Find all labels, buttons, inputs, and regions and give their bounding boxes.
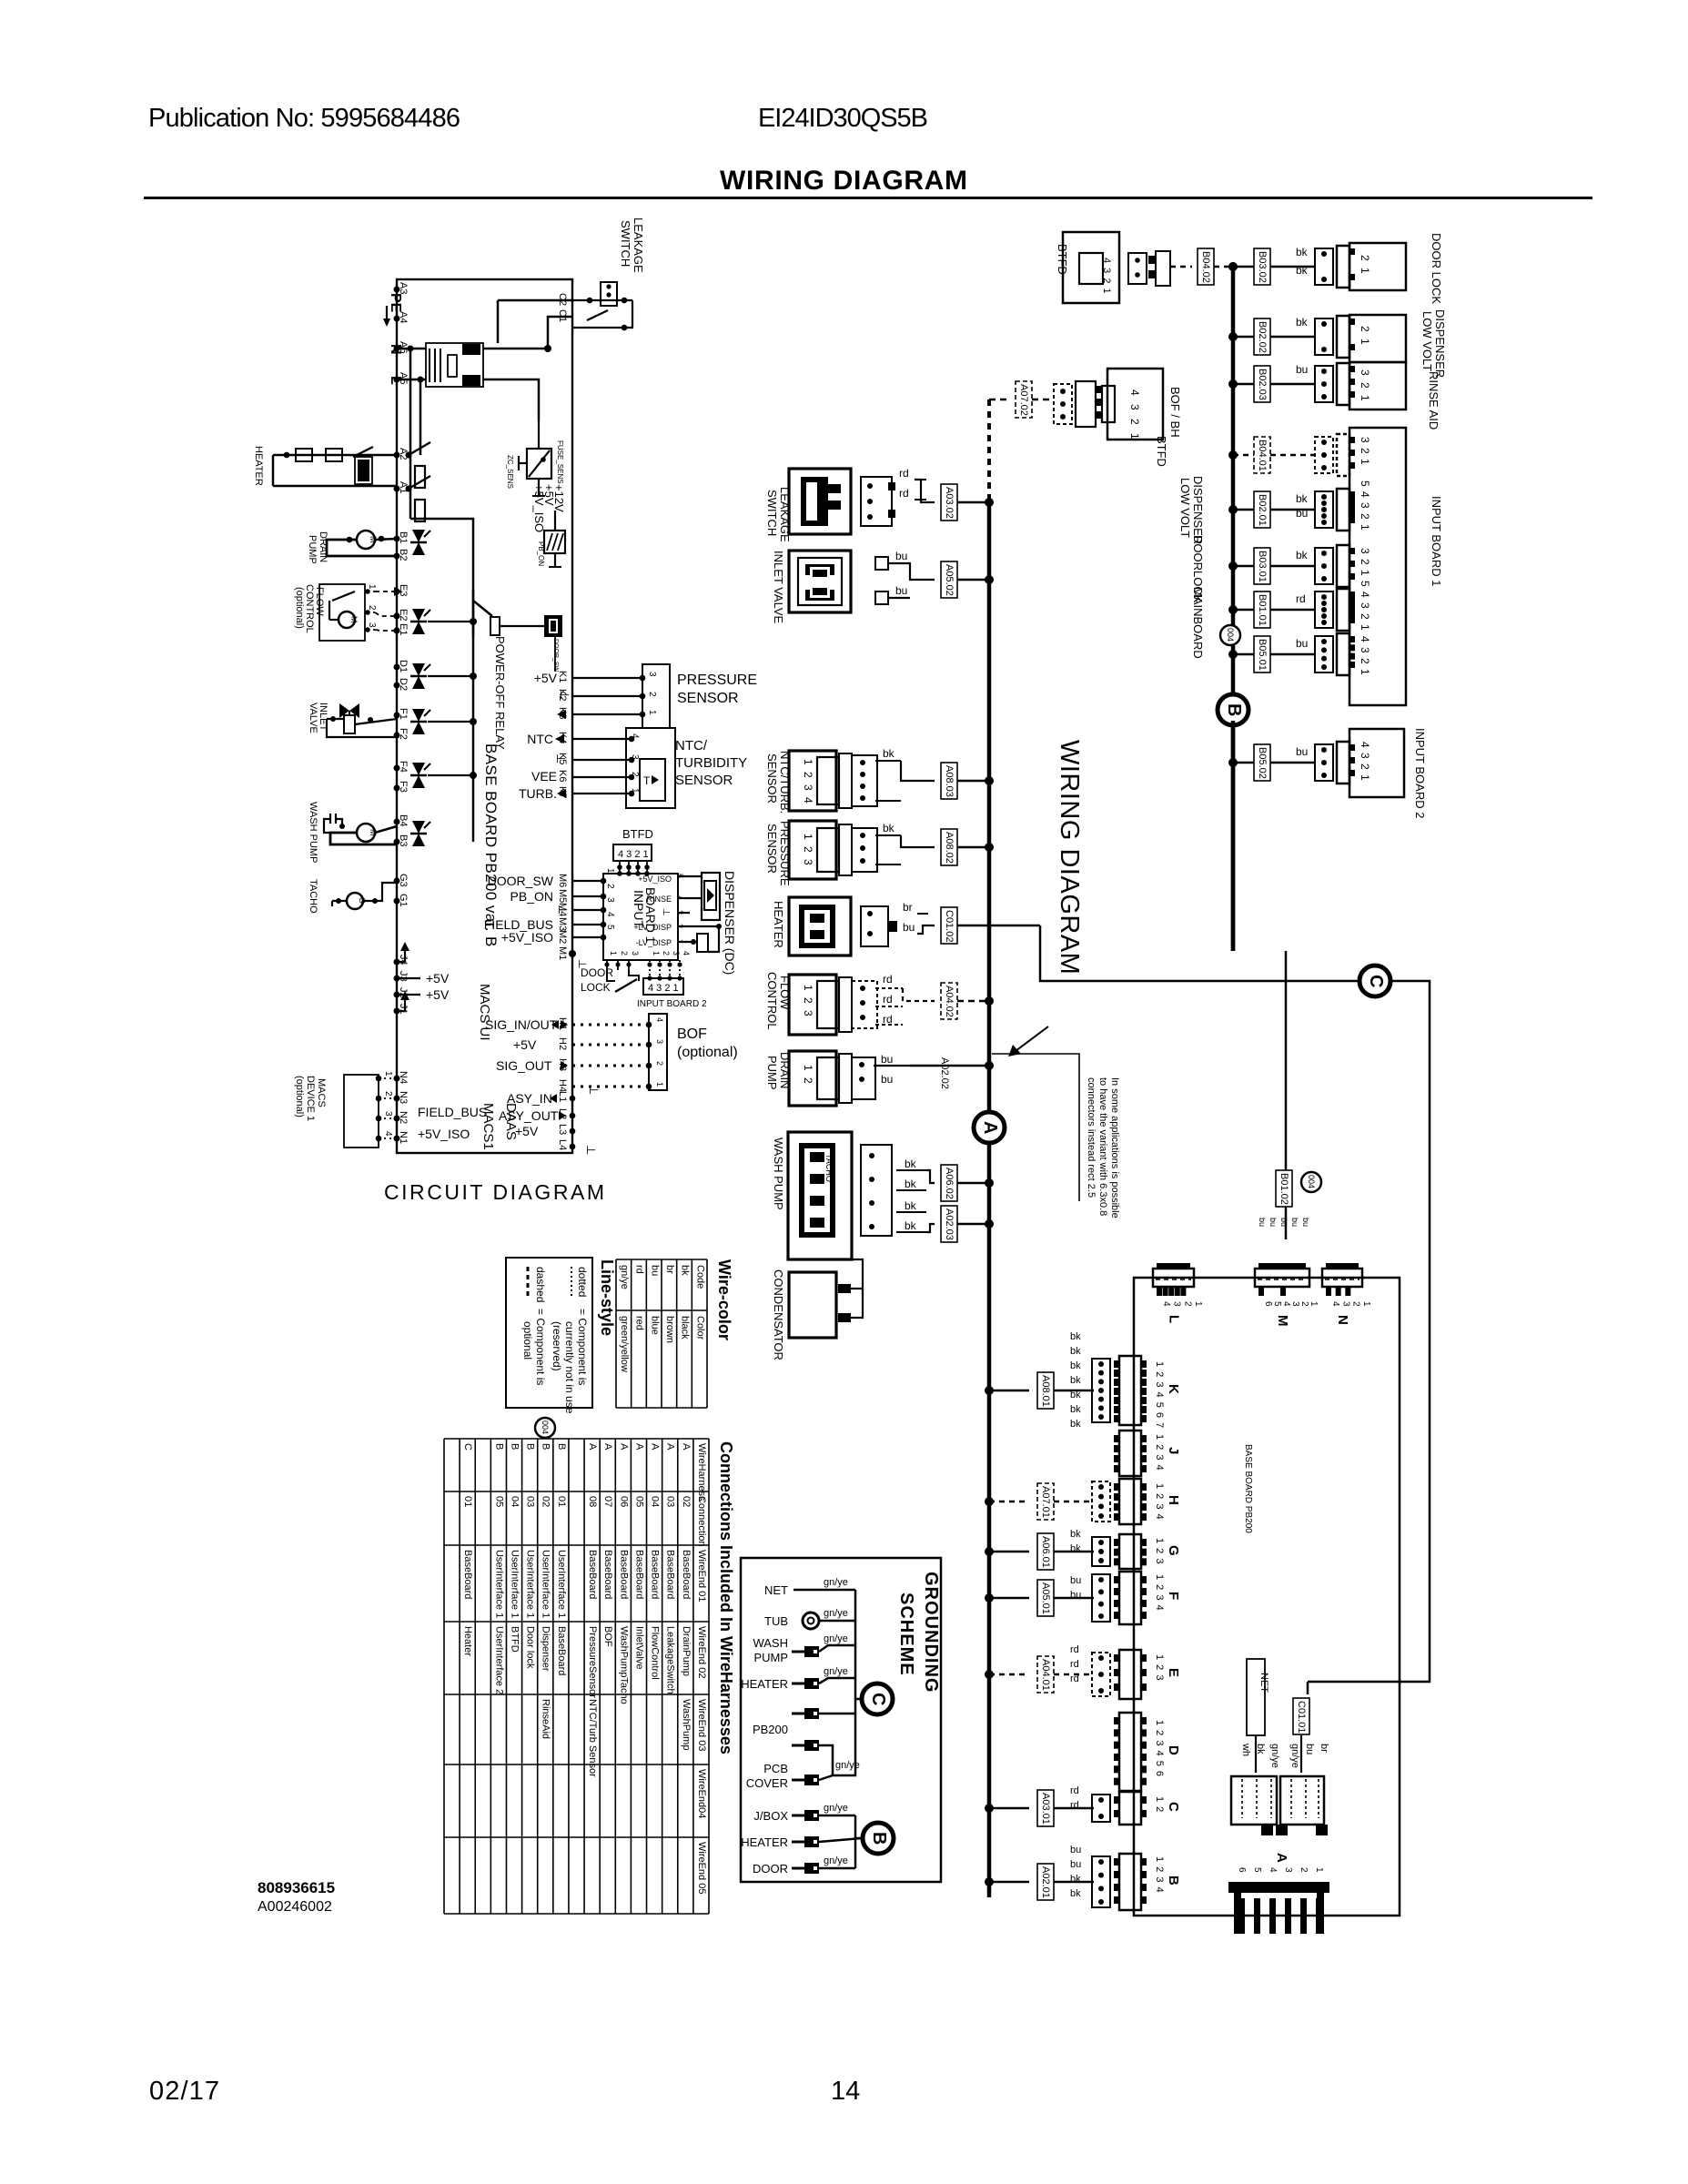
svg-text:B01.02: B01.02 [1279,1173,1289,1205]
svg-text:H2: H2 [557,1037,568,1050]
svg-text:B03.02: B03.02 [1257,251,1268,283]
svg-text:PRESSURE: PRESSURE [677,672,757,688]
svg-text:GROUNDING: GROUNDING [921,1572,941,1693]
svg-text:03: 03 [525,1496,536,1507]
svg-text:M2: M2 [557,930,568,944]
svg-text:bk: bk [905,1178,917,1190]
svg-text:H: H [1166,1495,1181,1505]
svg-text:A: A [980,1121,1000,1134]
svg-text:BaseBoard: BaseBoard [650,1550,661,1599]
svg-text:WIRING DIAGRAM: WIRING DIAGRAM [720,166,967,196]
svg-text:2: 2 [1299,1301,1309,1307]
svg-text:dotted: dotted [576,1267,589,1297]
svg-text:2: 2 [647,692,657,697]
svg-text:1: 1 [1361,1301,1371,1307]
svg-text:L4: L4 [557,1139,568,1150]
svg-text:B03.01: B03.01 [1257,551,1268,582]
svg-text:4: 4 [1161,1301,1171,1307]
svg-text:B: B [869,1832,889,1845]
svg-text:PCB: PCB [763,1762,788,1775]
svg-text:J: J [1166,1447,1181,1454]
svg-text:C01.02: C01.02 [944,910,955,942]
svg-text:brown: brown [664,1316,675,1343]
svg-text:1: 1 [605,868,615,874]
svg-text:03: 03 [665,1496,676,1507]
svg-text:gn/ye: gn/ye [824,1608,848,1619]
svg-text:4: 4 [682,951,691,955]
svg-text:bu: bu [1070,1590,1081,1601]
svg-text:INLET VALVE: INLET VALVE [772,551,785,624]
svg-text:1: 1 [647,710,657,715]
svg-text:optional: optional [521,1321,534,1360]
svg-text:rd: rd [634,1265,645,1274]
svg-text:+5V: +5V [426,987,450,1002]
svg-text:INPUT BOARD 1: INPUT BOARD 1 [1430,496,1443,586]
svg-text:BaseBoard: BaseBoard [681,1550,692,1599]
svg-text:WASH PUMP: WASH PUMP [772,1137,785,1210]
svg-text:WashPumpTacho: WashPumpTacho [618,1626,629,1704]
svg-text:rd: rd [1070,1644,1079,1655]
svg-text:rd: rd [1070,1673,1079,1684]
svg-text:A04.02: A04.02 [944,986,955,1017]
svg-text:+5V: +5V [534,671,558,685]
svg-text:RINSE AID: RINSE AID [1427,371,1440,430]
svg-text:bu: bu [1296,637,1308,650]
svg-text:EI24ID30QS5B: EI24ID30QS5B [758,104,928,133]
svg-text:02: 02 [541,1496,551,1507]
svg-text:M: M [349,616,359,623]
svg-text:2 1: 2 1 [1359,255,1371,276]
svg-text:A00246002: A00246002 [258,1899,332,1915]
svg-text:SENSOR: SENSOR [765,753,779,804]
svg-text:BaseBoard: BaseBoard [633,1550,644,1599]
svg-text:MACS UI: MACS UI [477,984,492,1041]
svg-text:rd: rd [883,1013,893,1026]
svg-text:PB_ON: PB_ON [537,541,545,566]
svg-text:A08.02: A08.02 [944,832,955,864]
svg-text:B05.02: B05.02 [1257,747,1268,779]
svg-text:WireHarness: WireHarness [696,1443,707,1501]
svg-text:UserInterface 1: UserInterface 1 [541,1550,551,1618]
svg-text:1 2 3: 1 2 3 [1154,1538,1165,1564]
svg-text:1 2: 1 2 [802,1065,814,1086]
svg-text:+LV_DISP: +LV_DISP [633,923,672,932]
svg-text:LOCK: LOCK [581,981,611,994]
svg-text:TACHO: TACHO [308,879,318,914]
svg-text:FUSE_SENS: FUSE_SENS [556,440,564,484]
svg-text:TURBIDITY: TURBIDITY [675,755,747,771]
svg-text:⊥: ⊥ [661,908,671,916]
svg-text:bu: bu [895,550,907,562]
svg-text:bk: bk [1070,1543,1081,1554]
svg-text:bu: bu [1290,1218,1299,1227]
svg-text:bu: bu [1279,1218,1289,1227]
svg-text:bk: bk [1070,1346,1081,1357]
svg-text:A: A [1274,1853,1289,1863]
svg-text:LeakageSwitch: LeakageSwitch [665,1626,676,1694]
svg-text:1: 1 [383,1071,393,1077]
svg-text:BaseBoard: BaseBoard [602,1550,613,1599]
svg-text:rd: rd [883,973,893,986]
svg-text:bu: bu [1070,1859,1081,1870]
svg-text:bu: bu [903,921,915,934]
svg-text:1: 1 [630,788,640,794]
svg-text:BTFD: BTFD [509,1626,520,1653]
svg-text:D: D [1166,1745,1181,1755]
svg-text:808936615: 808936615 [258,1879,335,1896]
svg-text:HEATER: HEATER [253,446,264,486]
svg-text:A07.01: A07.01 [1040,1486,1051,1518]
svg-text:2: 2 [620,951,629,955]
svg-text:1 2 3 4: 1 2 3 4 [1154,1574,1165,1612]
svg-text:CIRCUIT DIAGRAM: CIRCUIT DIAGRAM [384,1180,605,1204]
svg-text:A06.01: A06.01 [1040,1536,1051,1568]
svg-text:MAINBOARD: MAINBOARD [1191,587,1205,659]
svg-text:Door lock: Door lock [525,1626,536,1669]
svg-text:+5V: +5V [426,971,450,986]
svg-text:bk: bk [1070,1874,1081,1885]
svg-text:A: A [681,1443,692,1451]
svg-text:C: C [1166,1802,1181,1812]
svg-text:2: 2 [383,1091,393,1097]
svg-text:A: A [633,1443,644,1451]
svg-text:LOW VOLT: LOW VOLT [1178,478,1192,538]
svg-text:SENSOR: SENSOR [675,773,733,788]
svg-text:bk: bk [905,1199,917,1212]
svg-text:4 3 2 1: 4 3 2 1 [648,983,679,994]
svg-text:3: 3 [647,672,657,677]
svg-text:br: br [1319,1744,1329,1753]
svg-text:BaseBoard: BaseBoard [618,1550,629,1599]
svg-text:2: 2 [655,1061,664,1066]
svg-text:(optional): (optional) [294,1076,305,1117]
svg-text:3 2 1: 3 2 1 [1359,548,1371,577]
svg-text:WireEnd 01: WireEnd 01 [696,1550,707,1602]
svg-text:3: 3 [630,754,640,760]
svg-text:TUB: TUB [764,1614,788,1628]
svg-text:bu: bu [1301,1218,1310,1227]
svg-text:1 2 3 4 5 6 7: 1 2 3 4 5 6 7 [1154,1361,1165,1429]
svg-text:004: 004 [1307,1175,1316,1188]
svg-text:2: 2 [1351,1301,1361,1307]
svg-text:WIRING DIAGRAM: WIRING DIAGRAM [1055,740,1084,975]
svg-text:3: 3 [605,897,615,903]
svg-text:A02.03: A02.03 [944,1208,955,1240]
svg-text:3: 3 [367,622,377,628]
svg-text:DEVICE 1: DEVICE 1 [305,1076,316,1121]
svg-text:bu: bu [895,584,907,597]
svg-text:5 4 3 2 1: 5 4 3 2 1 [1359,480,1371,531]
svg-text:2: 2 [1182,1301,1192,1307]
svg-text:5: 5 [1252,1867,1262,1873]
svg-text:UserInterface 1: UserInterface 1 [525,1550,536,1618]
svg-text:INPUT BOARD 2: INPUT BOARD 2 [1413,728,1427,818]
svg-text:B: B [541,1443,551,1450]
svg-text:bu: bu [881,1053,893,1066]
svg-text:05: 05 [633,1496,644,1507]
svg-text:HEATER: HEATER [772,901,785,948]
svg-text:+5V_ISO: +5V_ISO [501,930,553,945]
svg-text:L3: L3 [557,1124,568,1135]
svg-text:gn/ye: gn/ye [824,1666,848,1677]
svg-text:DISPENSER (DC): DISPENSER (DC) [723,871,737,975]
svg-text:B02.03: B02.03 [1257,369,1268,400]
svg-text:B: B [525,1443,536,1450]
svg-text:2: 2 [367,605,377,611]
svg-text:blue: blue [649,1316,660,1335]
svg-text:3: 3 [655,1039,664,1044]
svg-text:1 2 3 4: 1 2 3 4 [1154,1856,1165,1894]
svg-text:C: C [462,1443,473,1451]
svg-text:PB200: PB200 [753,1723,788,1736]
svg-text:DISPENSER: DISPENSER [1433,309,1447,378]
svg-text:⊥: ⊥ [556,905,570,915]
svg-text:POWER-OFF RELAY: POWER-OFF RELAY [493,636,507,750]
svg-text:T: T [643,774,651,787]
svg-text:BOF: BOF [602,1626,613,1647]
svg-text:bk: bk [883,822,895,834]
svg-text:gn/ye: gn/ye [824,1577,848,1588]
svg-text:B: B [556,1443,567,1450]
svg-text:02: 02 [681,1496,692,1507]
svg-text:red: red [634,1316,645,1330]
svg-text:A08.01: A08.01 [1040,1375,1051,1407]
svg-text:3 2 1: 3 2 1 [1359,369,1371,403]
svg-text:RINSE: RINSE [646,895,672,904]
svg-text:bu: bu [1296,745,1308,758]
svg-text:WireEnd04: WireEnd04 [696,1769,707,1818]
svg-text:J/BOX: J/BOX [753,1809,788,1823]
svg-text:4: 4 [383,1131,393,1137]
svg-text:CONDENSATOR: CONDENSATOR [772,1269,785,1360]
svg-text:br: br [664,1265,675,1274]
svg-text:VALVE: VALVE [308,703,318,733]
svg-text:G: G [1166,1545,1181,1556]
svg-text:A02.02: A02.02 [939,1057,950,1089]
svg-text:B: B [493,1443,504,1450]
svg-text:bk: bk [1070,1529,1081,1540]
svg-text:NTC/: NTC/ [675,738,708,753]
svg-text:1 2 3 4: 1 2 3 4 [1154,1434,1165,1471]
svg-text:FIELD_BUS: FIELD_BUS [418,1105,487,1119]
svg-text:MACS: MACS [316,1078,327,1107]
svg-text:Line-style: Line-style [598,1259,616,1336]
svg-text:A: A [665,1443,676,1451]
svg-text:L: L [1167,1315,1182,1323]
svg-text:02/17: 02/17 [149,2077,219,2106]
svg-text:to have the variant with 6.3x0: to have the variant with 6.3x0.8 [1097,1077,1108,1216]
svg-text:B: B [509,1443,520,1450]
svg-text:COVER: COVER [746,1776,788,1790]
svg-text:Dispenser: Dispenser [541,1626,551,1672]
svg-text:+5V: +5V [513,1037,537,1052]
svg-text:1 2 3: 1 2 3 [1154,1654,1165,1681]
svg-text:NET: NET [1258,1673,1269,1693]
svg-text:MACS1: MACS1 [480,1103,496,1150]
svg-text:A06.02: A06.02 [944,1168,955,1199]
svg-text:1 2 3: 1 2 3 [802,834,814,867]
svg-text:1 2: 1 2 [1154,1796,1165,1813]
svg-text:1: 1 [1309,1301,1319,1307]
svg-text:= Component is: = Component is [576,1309,589,1385]
svg-text:1 2 3 4: 1 2 3 4 [1154,1483,1165,1521]
svg-text:B04.01: B04.01 [1257,440,1268,471]
svg-text:2: 2 [1299,1867,1309,1873]
svg-text:004: 004 [1226,628,1235,642]
svg-text:3: 3 [1340,1301,1350,1307]
svg-text:dashed: dashed [534,1267,547,1302]
svg-text:UserInterface 2: UserInterface 2 [493,1626,504,1694]
svg-text:WireEnd 05: WireEnd 05 [696,1842,707,1894]
svg-text:bk: bk [1070,1404,1081,1415]
svg-text:UserInterface 1: UserInterface 1 [556,1550,567,1618]
svg-text:WireEnd 02: WireEnd 02 [696,1626,707,1678]
svg-text:05: 05 [493,1496,504,1507]
svg-text:connectors instead rect 2.5: connectors instead rect 2.5 [1086,1077,1097,1198]
svg-text:Connections Included In WireHa: Connections Included In WireHarnesses [717,1441,735,1754]
svg-text:C01.01: C01.01 [1296,1701,1307,1733]
svg-text:SENSOR: SENSOR [677,691,739,706]
svg-text:bu: bu [881,1073,893,1086]
svg-text:K: K [1166,1384,1181,1394]
svg-text:A03.01: A03.01 [1040,1793,1051,1825]
svg-text:NTC: NTC [527,732,553,746]
svg-text:BaseBoard: BaseBoard [556,1626,567,1675]
svg-text:C: C [868,1693,888,1705]
svg-text:SWITCH: SWITCH [619,220,632,267]
svg-text:In some applications is possib: In some applications is possible [1109,1077,1120,1218]
svg-text:NET: NET [764,1583,788,1597]
svg-text:6: 6 [1237,1867,1247,1873]
svg-text:M1: M1 [557,946,568,960]
svg-text:B: B [1224,703,1244,716]
svg-text:gn/ye: gn/ye [835,1760,860,1771]
svg-text:INPUT BOARD 2: INPUT BOARD 2 [637,999,707,1009]
svg-text:B02.01: B02.01 [1257,494,1268,526]
svg-text:bu: bu [1296,507,1308,520]
svg-text:= Component is: = Component is [534,1309,547,1385]
svg-text:UserInterface 1: UserInterface 1 [493,1550,504,1618]
svg-text:ZC_SENS: ZC_SENS [506,455,514,489]
svg-text:BTFD: BTFD [622,827,653,841]
svg-text:5 4 3 2 1: 5 4 3 2 1 [1359,581,1371,632]
svg-text:A: A [650,1443,661,1451]
svg-text:ASY_IN: ASY_IN [507,1091,552,1106]
svg-text:currently not in use: currently not in use [563,1321,576,1414]
svg-text:bk: bk [1296,246,1309,258]
svg-text:PUMP: PUMP [765,1056,779,1090]
svg-text:Color: Color [694,1316,705,1340]
svg-text:1: 1 [609,951,618,955]
svg-text:M6: M6 [557,874,568,887]
svg-text:DISPENSER: DISPENSER [1191,476,1205,544]
svg-text:WASH: WASH [753,1636,788,1650]
svg-text:004: 004 [541,1421,550,1434]
svg-text:PB_ON: PB_ON [510,889,553,904]
svg-text:TURB.: TURB. [519,786,557,801]
svg-text:B04.02: B04.02 [1200,251,1211,283]
svg-text:4: 4 [1281,1301,1291,1307]
svg-text:4 3 2 1: 4 3 2 1 [1359,742,1371,782]
svg-text:B: B [1166,1876,1181,1886]
svg-text:BOF / BH: BOF / BH [1168,387,1182,438]
svg-text:gn/ye: gn/ye [824,1803,848,1814]
svg-text:rd: rd [1070,1800,1079,1811]
svg-text:A05.02: A05.02 [944,564,955,596]
svg-text:06: 06 [618,1496,629,1507]
svg-text:+5V: +5V [515,1124,539,1138]
svg-text:4 3 2 1: 4 3 2 1 [618,849,649,860]
svg-text:01: 01 [462,1496,473,1507]
svg-text:⊥: ⊥ [558,690,571,700]
svg-text:br: br [903,901,913,914]
svg-text:2: 2 [630,772,640,777]
svg-text:FlowControl: FlowControl [650,1626,661,1680]
svg-text:5: 5 [1272,1301,1282,1307]
svg-text:PUMP: PUMP [307,535,318,564]
svg-text:WASH PUMP: WASH PUMP [308,802,318,863]
svg-text:1: 1 [1193,1301,1203,1307]
svg-text:bk: bk [905,1219,917,1232]
svg-text:wh: wh [1240,1743,1251,1756]
svg-text:⊥: ⊥ [584,1145,598,1155]
svg-text:bu: bu [649,1265,660,1276]
svg-text:rd: rd [1070,1659,1079,1670]
svg-text:bu: bu [1296,363,1308,376]
svg-text:3: 3 [672,951,681,955]
svg-text:bk: bk [1070,1390,1081,1400]
svg-text:4: 4 [1268,1867,1278,1873]
svg-text:WashPump: WashPump [681,1699,692,1750]
svg-text:gn/ye: gn/ye [619,1265,630,1289]
svg-text:bk: bk [1296,316,1309,329]
svg-text:bk: bk [1070,1375,1081,1386]
svg-text:L1: L1 [557,1091,568,1102]
svg-text:A07.02: A07.02 [1018,384,1029,416]
svg-text:B02.02: B02.02 [1257,321,1268,353]
svg-text:A05.01: A05.01 [1040,1582,1051,1614]
svg-text:3: 3 [1172,1301,1182,1307]
svg-text:BaseBoard: BaseBoard [665,1550,676,1599]
svg-text:rd: rd [883,993,893,1006]
svg-text:08: 08 [587,1496,598,1507]
svg-text:4 3 2 1: 4 3 2 1 [1128,389,1141,442]
svg-text:2: 2 [662,951,671,955]
svg-text:RinseAid: RinseAid [541,1699,551,1739]
svg-text:DOOR: DOOR [581,966,613,979]
svg-text:bk: bk [1070,1360,1081,1371]
svg-text:4: 4 [1330,1301,1340,1307]
svg-text:C: C [1366,975,1386,987]
svg-text:04: 04 [650,1496,661,1507]
svg-text:K1: K1 [557,671,568,682]
svg-text:1 2 3 4 5 6: 1 2 3 4 5 6 [1154,1720,1165,1777]
svg-text:BASE BOARD PB200: BASE BOARD PB200 [1243,1444,1253,1533]
svg-text:BOF: BOF [677,1026,707,1042]
svg-text:B05.01: B05.01 [1257,639,1268,671]
svg-text:2: 2 [605,884,615,889]
svg-text:3: 3 [1290,1301,1300,1307]
svg-text:LOW VOLT: LOW VOLT [1420,311,1434,371]
svg-text:A03.02: A03.02 [944,487,955,519]
svg-text:01: 01 [556,1496,567,1507]
svg-text:6: 6 [1263,1301,1273,1307]
svg-text:1: 1 [1314,1867,1324,1873]
svg-text:4: 4 [630,733,640,739]
svg-text:bu: bu [1258,1218,1267,1227]
svg-text:(reserved): (reserved) [551,1321,563,1371]
svg-text:A04.01: A04.01 [1040,1659,1051,1691]
